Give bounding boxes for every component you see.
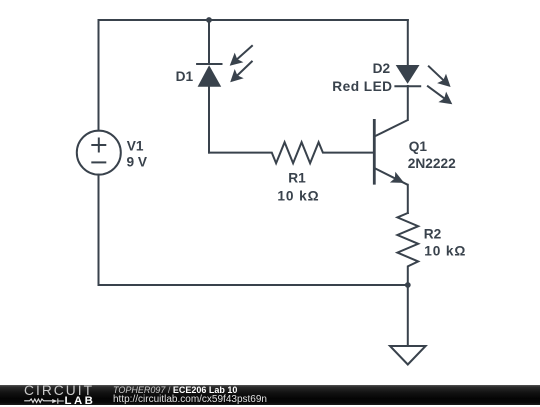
svg-text:V1: V1 [127, 139, 144, 154]
wire bottom horizontal [99, 284, 408, 286]
D2 light arrow 1 [428, 66, 451, 87]
transistor Q1 [374, 119, 408, 185]
svg-text:D1: D1 [176, 69, 194, 84]
footer line 2 [113, 395, 267, 404]
svg-text:2N2222: 2N2222 [408, 156, 456, 171]
photodiode D1 [196, 64, 222, 88]
node junction top [206, 17, 212, 23]
svg-text:Red LED: Red LED [332, 79, 392, 94]
wire ground lead [407, 285, 409, 346]
node junction bottom [405, 282, 411, 288]
CircuitLab logo squiggle [24, 396, 66, 406]
wire emitter lead [407, 185, 409, 213]
D1 light arrow 2 [230, 61, 252, 82]
LED D2 [394, 65, 421, 86]
svg-text:R2: R2 [424, 227, 442, 242]
wire top horizontal [99, 19, 408, 21]
footer bar [0, 385, 540, 405]
D1 light arrow 1 [230, 45, 253, 66]
footer line 1 [113, 386, 237, 395]
wire D1 bottom lead [208, 87, 210, 153]
wire D2 top lead [407, 20, 409, 65]
wire D1 top lead [208, 20, 210, 64]
svg-text:Q1: Q1 [409, 139, 428, 154]
svg-text:9 V: 9 V [127, 155, 148, 170]
svg-text:D2: D2 [373, 61, 391, 76]
wire D2 bottom lead [407, 86, 409, 120]
svg-text:10 kΩ: 10 kΩ [424, 243, 466, 258]
wire left upper [98, 20, 100, 131]
svg-text:10 kΩ: 10 kΩ [277, 188, 319, 203]
resistor R2 zigzag [397, 213, 418, 285]
ground [390, 346, 426, 365]
CircuitLab logo text CIRCUIT [24, 385, 94, 398]
CircuitLab logo text LAB [65, 396, 96, 406]
wire base row with R1 zigzag [209, 142, 374, 163]
D2 light arrow 2 [427, 86, 452, 105]
wire left lower [98, 175, 100, 285]
voltage source V1 [77, 131, 121, 175]
svg-text:R1: R1 [288, 171, 306, 186]
